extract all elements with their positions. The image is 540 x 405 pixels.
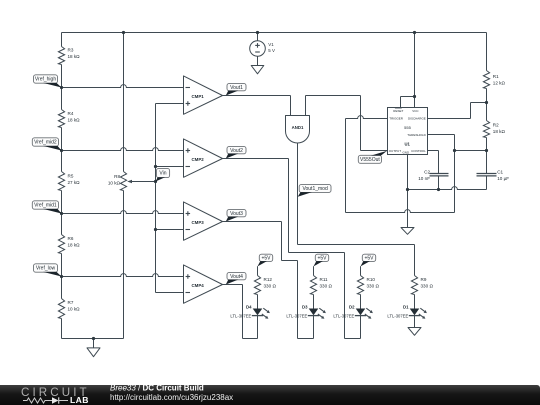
wire Vin vertical bus: [156, 104, 184, 293]
node label Vref_mid1: [32, 201, 61, 214]
junction dot top rail V1: [256, 31, 259, 34]
CircuitLab logo wordmark: [21, 386, 90, 405]
wire +5V lead to R12: [257, 266, 259, 275]
wire top +5V rail: [62, 32, 487, 34]
wire Vout4 route to D4 cathode: [223, 285, 258, 339]
node label V555Out: [358, 151, 387, 164]
node label Vout2: [226, 146, 246, 158]
wire capacitor ground rail: [408, 187, 487, 190]
wire D1 cathode to ground: [414, 316, 416, 328]
junction dots threshold node: [453, 149, 488, 152]
ground bottom-left divider: [87, 339, 100, 357]
wire right rail R1 R2 C1 column: [486, 33, 488, 190]
wire CMP3 minus stub: [156, 229, 184, 231]
node label +5V for R11: [314, 254, 329, 266]
wire resistor-LED lead: [360, 295, 362, 309]
junction dot R1-R2-discharge: [485, 101, 488, 104]
wire node Vref_high row: [62, 85, 184, 88]
wire node Vref_mid2 row: [62, 148, 184, 151]
node label Vout4: [226, 272, 246, 284]
wire 555 trigger-threshold tie: [346, 116, 455, 213]
op-amp CMP4: [184, 265, 223, 303]
wire resistor-LED lead: [313, 295, 315, 309]
LED D1 with resistor R9: [387, 276, 433, 319]
IC U1 555 timer: [388, 108, 428, 155]
node label Vout1: [226, 83, 246, 95]
node label Vout1_mod: [298, 184, 331, 196]
wire mid rail: [123, 33, 125, 339]
wire Vout1_mod AND1 output to R9/D1: [298, 143, 415, 276]
node label +5V for R12: [258, 254, 273, 266]
svg-text:Bree33 / DC Circuit Build: Bree33 / DC Circuit Build: [110, 384, 204, 393]
resistor R5: [58, 172, 80, 191]
capacitor C2: [418, 169, 448, 181]
resistor R1: [483, 71, 505, 89]
wire CMP2 minus stub: [156, 166, 184, 168]
wire C1 bottom lead: [486, 176, 488, 189]
wire CMP1 output to AND1 input A: [223, 96, 291, 116]
resistor R2: [483, 121, 505, 138]
junction dots Vin bus: [154, 165, 157, 231]
node label Vref_mid2: [32, 138, 61, 151]
LED D4 with resistor R12: [230, 276, 276, 319]
wire Vout2 route to D2 cathode: [223, 159, 361, 339]
node label Vref_low: [34, 264, 62, 277]
junction dots cap ground rail: [406, 188, 440, 191]
resistor R7: [58, 299, 80, 319]
wire node Vref_mid1 row: [62, 211, 184, 214]
wire +5V lead to R11: [313, 266, 315, 275]
wire left divider rail: [61, 33, 63, 339]
wire threshold node to R2/C1 node: [455, 150, 487, 152]
svg-text:http://circuitlab.com/cu36rjzu: http://circuitlab.com/cu36rjzu238ax: [110, 393, 233, 402]
wire +5V lead to R10: [360, 266, 362, 275]
LED D3 with resistor R11: [286, 276, 332, 319]
op-amp CMP3: [184, 202, 223, 240]
capacitor C1: [477, 169, 510, 181]
wire V1 leads: [257, 33, 259, 66]
wire 555 reset-vcc tie and +5V feed: [401, 33, 415, 108]
op-amp CMP1: [184, 76, 223, 114]
wire resistor-LED lead: [257, 295, 259, 309]
node label +5V for R10: [361, 254, 376, 266]
resistor R3: [58, 47, 80, 65]
ground below D1: [408, 328, 421, 336]
node label Vin: [156, 168, 170, 181]
junction dots left divider nodes: [60, 86, 95, 340]
wire 555 discharge to R1/R2 node: [428, 103, 487, 119]
LED D2 with resistor R10: [333, 276, 379, 319]
resistor R4: [58, 110, 80, 128]
junction dot reset-vcc tie: [413, 95, 416, 98]
voltage source V1: [250, 41, 275, 57]
node label Vout3: [226, 209, 246, 221]
wire 555 gnd pin down: [407, 155, 409, 228]
ground below V1: [251, 66, 264, 74]
resistor R6: [58, 235, 80, 254]
ground below 555: [401, 228, 414, 235]
wire Vout3 route to D3 cathode: [223, 222, 314, 339]
wire R8 wiper: [127, 180, 155, 183]
op-amp CMP2: [184, 139, 223, 177]
wire 555 control to C2: [428, 151, 439, 190]
wire bottom-left ground rail: [62, 338, 124, 340]
wire AND1 input B from 555 output: [306, 96, 388, 151]
footer title text: [110, 384, 233, 403]
logo resistor-diode squiggle: [23, 397, 68, 403]
junction dot top rail VCC: [413, 31, 416, 34]
svg-text:LAB: LAB: [70, 395, 89, 405]
junction dot top rail mid: [122, 31, 125, 34]
node label Vref_high: [34, 75, 62, 88]
wire resistor-LED lead: [414, 295, 416, 309]
potentiometer R8: [108, 172, 127, 191]
wire node Vref_low row: [62, 274, 184, 277]
AND gate AND1: [286, 116, 310, 144]
